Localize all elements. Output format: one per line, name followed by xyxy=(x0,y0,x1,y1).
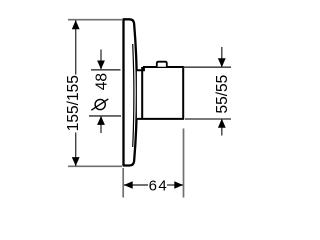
dim 64: right arrow (points right) xyxy=(174,181,183,189)
dim 55/55: upper arrow (points down) xyxy=(218,58,226,67)
escutcheon plate (side profile) xyxy=(124,19,137,165)
dim 55/55: lower arrow shaft xyxy=(221,119,223,136)
dim 155/155: dimension line upper segment xyxy=(75,20,77,74)
dim 155/155: bottom extension line xyxy=(68,165,122,167)
svg-text:55/55: 55/55 xyxy=(214,75,231,114)
dim 55/55: top extension line xyxy=(184,66,232,68)
knob grip joint line xyxy=(141,67,143,119)
svg-text:155/155: 155/155 xyxy=(65,75,82,131)
dim 64: dimension line left segment xyxy=(124,184,148,186)
dim o48: bottom extension line xyxy=(89,115,121,117)
svg-text:48: 48 xyxy=(93,73,110,90)
dim o48: diameter symbol xyxy=(91,99,108,110)
knob (handle) side view xyxy=(137,67,183,119)
dim o48: lower arrow shaft xyxy=(100,116,102,133)
dim 55/55: lower arrow (points up) xyxy=(218,119,226,128)
dim 155/155: dimension line lower segment xyxy=(75,133,77,166)
plate face inner line xyxy=(133,44,134,147)
dim 55/55: upper arrow shaft xyxy=(221,47,223,67)
dim 64: left extension line xyxy=(122,168,124,198)
dim 55/55: bottom extension line xyxy=(185,118,231,120)
dim 155/155: top arrow xyxy=(72,20,80,29)
dim o48: upper arrow shaft xyxy=(100,50,102,70)
dim 64: right extension line xyxy=(183,129,185,198)
dim 155/155: bottom arrow xyxy=(72,157,80,166)
dim o48: top extension line xyxy=(91,69,121,71)
dim 64: left arrow (points left) xyxy=(124,181,133,189)
knob top tab xyxy=(157,62,167,67)
dim 64: dimension line right segment xyxy=(167,184,183,186)
dim o48: lower arrow (points up) xyxy=(97,116,105,125)
dim o48: upper arrow (points down) xyxy=(97,61,105,70)
dim 155/155: top extension line xyxy=(68,19,122,21)
svg-text:64: 64 xyxy=(149,177,169,194)
